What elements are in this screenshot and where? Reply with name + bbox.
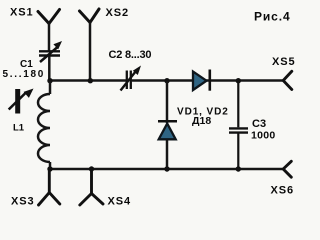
diode VD2 [193,70,210,91]
node L1/XS3 bottom [47,166,52,171]
svg-text:C3: C3 [252,118,266,130]
connector XS6 [283,161,291,177]
node XS2 [88,78,93,83]
svg-text:Рис.4: Рис.4 [254,10,291,24]
capacitor C1 (variable) [39,41,62,62]
capacitor C2 (variable trimmer) [121,66,142,91]
wire C1 to top rail [48,56,51,81]
node C3 top [236,78,241,83]
capacitor C3 [229,81,248,169]
svg-text:C2 8...30: C2 8...30 [109,49,152,61]
svg-text:Д18: Д18 [192,115,211,127]
wire top rail left [50,79,127,82]
connector XS5 [283,71,292,89]
trimmer arrow of L1 [9,89,34,114]
svg-text:1000: 1000 [251,130,276,142]
connector XS4 [80,169,103,205]
inductor L1 [38,81,50,169]
node XS4 bottom [89,166,94,171]
wire bottom rail [50,168,283,171]
svg-text:XS4: XS4 [108,196,132,208]
diode VD1 [158,81,177,169]
svg-text:XS5: XS5 [272,56,296,68]
connector XS2 [80,9,100,23]
svg-text:5...180: 5...180 [3,69,45,80]
node C1/L1 [47,78,52,83]
wire XS2 stem [89,23,92,81]
node VD1 top [164,78,169,83]
svg-text:XS6: XS6 [271,185,295,197]
wire top rail right [211,79,283,82]
svg-text:XS3: XS3 [11,196,35,208]
svg-text:XS2: XS2 [106,7,130,19]
node VD1 bottom [164,166,169,171]
wire top rail middle [131,79,210,82]
connector XS3 [39,169,60,205]
svg-text:XS1: XS1 [10,7,34,19]
wire XS1 stem [48,24,51,51]
svg-text:L1: L1 [13,123,25,134]
connector XS1 [38,10,60,24]
node C3 bottom [236,166,241,171]
